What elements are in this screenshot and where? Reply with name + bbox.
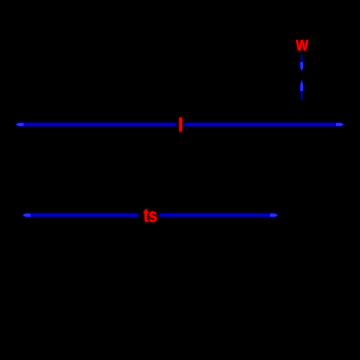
- wire: ts right segment (glow): [160, 214, 277, 217]
- arrowhead: w lower up: [300, 80, 303, 91]
- arrowhead: ts left: [23, 214, 31, 217]
- wire: ts left segment: [28, 214, 138, 216]
- arrowhead: w lower up (glow): [300, 80, 303, 92]
- arrowhead: ts right (glow): [270, 213, 278, 217]
- arrowhead: ts right: [270, 214, 278, 217]
- wire: ts right segment: [160, 214, 273, 216]
- arrowhead: ts left (glow): [23, 213, 31, 217]
- wire: w lower shaft: [301, 91, 303, 100]
- arrowhead: l left: [16, 123, 24, 126]
- wire: l right segment (glow): [184, 123, 342, 126]
- arrowhead: w upper down (glow): [300, 62, 303, 71]
- wire: w lower shaft (glow): [301, 91, 303, 100]
- wire: ts left segment (glow): [24, 214, 138, 217]
- svg-text:ts: ts: [144, 204, 158, 226]
- svg-text:w: w: [295, 33, 308, 55]
- arrowhead: l right: [336, 123, 344, 126]
- wire: w upper shaft (glow): [301, 54, 303, 63]
- wire: w upper shaft: [301, 55, 303, 64]
- dimension line l: [16, 55, 344, 217]
- svg-text:l: l: [178, 115, 183, 137]
- wire: l left segment (glow): [17, 123, 176, 126]
- arrowhead: w upper down: [300, 62, 303, 71]
- wire: l right segment: [184, 124, 338, 126]
- wire: l left segment: [21, 124, 176, 126]
- arrowhead: l left (glow): [16, 123, 24, 127]
- arrowhead: l right (glow): [336, 123, 344, 127]
